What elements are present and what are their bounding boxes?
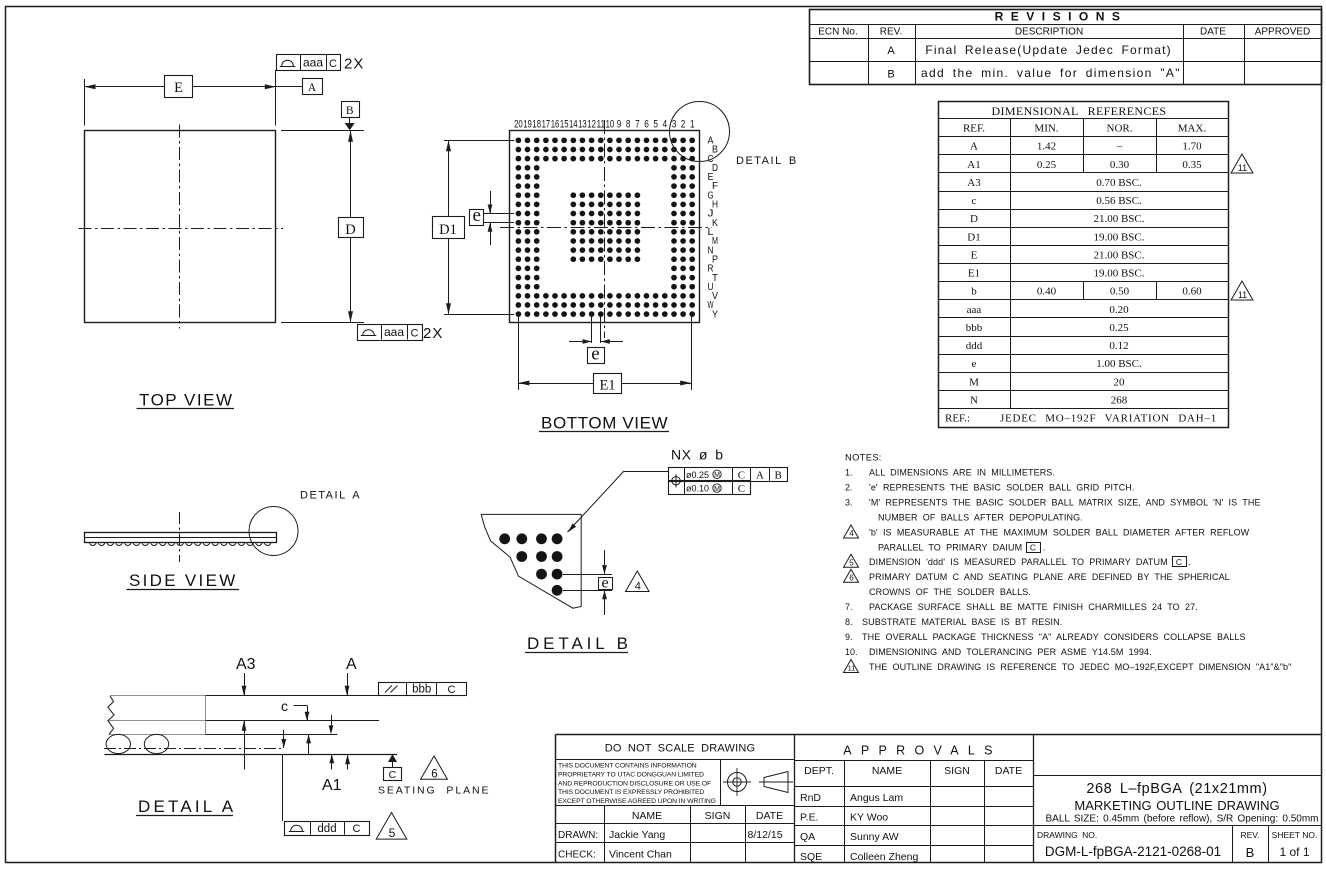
svg-text:ECN No.: ECN No. (818, 27, 857, 38)
detail A ball 2 (144, 734, 168, 753)
svg-text:P.E.: P.E. (800, 812, 819, 824)
note 11 triangle (b row) (1231, 281, 1253, 300)
svg-text:1.42: 1.42 (1037, 141, 1056, 153)
svg-text:aaa: aaa (384, 325, 404, 339)
svg-text:Jackie Yang: Jackie Yang (609, 829, 665, 841)
ball pitch e (left) arrows (490, 191, 492, 214)
svg-text:DATE: DATE (995, 765, 1022, 777)
svg-text:DIMENSION 'ddd' IS MEASURED PA: DIMENSION 'ddd' IS MEASURED PARALLEL TO … (869, 557, 1168, 567)
svg-text:C: C (411, 328, 419, 340)
side view solder balls (90, 542, 271, 545)
svg-text:DRAWN:: DRAWN: (558, 830, 598, 841)
svg-text:2: 2 (681, 119, 686, 131)
svg-text:MARKETING OUTLINE DRAWING: MARKETING OUTLINE DRAWING (1074, 798, 1279, 813)
detail A ball 1 (106, 734, 130, 753)
svg-text:5: 5 (653, 119, 658, 131)
svg-text:TOP VIEW: TOP VIEW (139, 391, 234, 410)
svg-text:APPROVALS: APPROVALS (843, 744, 1002, 758)
svg-text:CHECK:: CHECK: (558, 850, 596, 861)
datum C symbol at seating plane (388, 754, 397, 762)
svg-text:NUMBER OF BALLS AFTER DEPOPULA: NUMBER OF BALLS AFTER DEPOPULATING. (878, 513, 1083, 523)
bottom view horizontal centerline (500, 227, 712, 229)
bottom view vertical centerline (604, 120, 606, 338)
note 11 triangle (A1 row) (1231, 154, 1253, 173)
svg-text:0.56 BSC.: 0.56 BSC. (1096, 195, 1142, 207)
dimension E extension line left (84, 79, 86, 126)
svg-text:.: . (1188, 557, 1191, 567)
detail A top line / dimension A extension (206, 695, 466, 697)
svg-text:Final Release(Update Jedec For: Final Release(Update Jedec Format) (925, 43, 1172, 57)
svg-text:3.: 3. (845, 498, 853, 508)
dimension D line (350, 131, 352, 218)
revisions table (810, 10, 1322, 85)
svg-text:0.50: 0.50 (1110, 286, 1130, 298)
svg-text:DESCRIPTION: DESCRIPTION (1015, 27, 1083, 38)
svg-text:B: B (1246, 845, 1255, 860)
svg-text:DIMENSIONING AND TOLERANCING P: DIMENSIONING AND TOLERANCING PER ASME Y1… (869, 647, 1152, 657)
svg-text:C: C (353, 823, 361, 835)
side view package body (85, 533, 277, 543)
svg-text:KY Woo: KY Woo (850, 812, 888, 824)
ball pitch e (bottom) arrows (569, 341, 592, 343)
svg-text:aaa: aaa (303, 56, 323, 70)
svg-text:'M' REPRESENTS THE BASIC SOLDE: 'M' REPRESENTS THE BASIC SOLDER BALL MAT… (869, 498, 1261, 508)
svg-text:SIGN: SIGN (944, 765, 970, 777)
svg-text:20: 20 (1114, 376, 1126, 388)
svg-text:10.: 10. (845, 647, 858, 657)
svg-text:9: 9 (617, 119, 622, 131)
svg-text:8/12/15: 8/12/15 (748, 829, 783, 841)
svg-text:E: E (971, 249, 978, 261)
svg-text:e: e (472, 205, 480, 226)
solder ball grid (268 balls) (516, 137, 696, 317)
svg-text:21.00 BSC.: 21.00 BSC. (1093, 249, 1144, 261)
A1 dimension arrows (331, 754, 333, 769)
svg-text:aaa: aaa (967, 304, 982, 316)
svg-text:DRAWING NO.: DRAWING NO. (1037, 830, 1097, 840)
svg-text:10: 10 (606, 119, 615, 131)
detail B zoom circle (670, 102, 730, 162)
svg-text:A3: A3 (236, 656, 256, 673)
svg-text:SHEET NO.: SHEET NO. (1272, 830, 1318, 840)
svg-text:1.: 1. (845, 468, 853, 478)
svg-text:C: C (329, 58, 337, 70)
svg-text:8.: 8. (845, 617, 853, 627)
svg-text:NAME: NAME (632, 810, 662, 822)
svg-text:268 L–fpBGA (21x21mm): 268 L–fpBGA (21x21mm) (1086, 781, 1267, 797)
svg-text:add the min. value for dimensi: add the min. value for dimension "A" (921, 66, 1181, 80)
svg-text:4: 4 (849, 529, 854, 538)
svg-text:NX ø b: NX ø b (671, 447, 724, 463)
svg-text:D1: D1 (967, 231, 980, 243)
dimension D1 line (448, 140, 450, 216)
svg-text:AND REPRODUCTION DISCLOSURE OR: AND REPRODUCTION DISCLOSURE OR USE OF (558, 780, 711, 787)
ball pitch e (left) label box (470, 210, 484, 226)
leader from tolerance frame to ball (624, 471, 668, 473)
svg-text:ø0.10: ø0.10 (686, 484, 709, 494)
svg-text:A: A (970, 141, 978, 153)
detail B pitch e label box (599, 578, 613, 590)
svg-text:THIS DOCUMENT CONTAINS INFORMA: THIS DOCUMENT CONTAINS INFORMATION (558, 763, 697, 770)
svg-text:bbb: bbb (966, 322, 983, 334)
svg-text:EXCEPT OTHERWISE AGREED UPON I: EXCEPT OTHERWISE AGREED UPON IN WRITING (558, 798, 716, 805)
svg-text:MAX.: MAX. (1178, 123, 1207, 135)
svg-text:PACKAGE SURFACE SHALL BE MATTE: PACKAGE SURFACE SHALL BE MATTE FINISH CH… (869, 602, 1198, 612)
svg-text:0.25: 0.25 (1109, 322, 1129, 334)
detail B pitch e arrows (604, 550, 606, 574)
svg-text:–: – (1116, 141, 1123, 153)
top view package body outline (85, 131, 276, 323)
svg-text:0.25: 0.25 (1037, 159, 1057, 171)
svg-text:'e' REPRESENTS THE BASIC SOLDE: 'e' REPRESENTS THE BASIC SOLDER BALL GRI… (869, 483, 1135, 493)
svg-text:16: 16 (551, 119, 560, 131)
svg-text:MIN.: MIN. (1034, 123, 1058, 135)
svg-text:2.: 2. (845, 483, 853, 493)
top view vertical centerline (179, 125, 181, 329)
svg-text:3: 3 (672, 119, 677, 131)
note 11 triangle (notes list) (844, 660, 859, 673)
datum A feature box (276, 86, 302, 88)
svg-text:7.: 7. (845, 602, 853, 612)
svg-text:bbb: bbb (412, 684, 431, 696)
svg-text:REF.: REF. (963, 123, 985, 135)
svg-text:A1: A1 (322, 777, 342, 794)
svg-text:PRIMARY DATUM C AND SEATING PL: PRIMARY DATUM C AND SEATING PLANE ARE DE… (869, 572, 1230, 582)
detail B pitch e extension lines (563, 574, 612, 576)
title area (1033, 775, 1321, 777)
svg-text:19.00 BSC.: 19.00 BSC. (1093, 231, 1144, 243)
profile tolerance frame ddd C (282, 754, 284, 821)
detail A zoom circle (249, 507, 298, 556)
svg-text:DETAIL A: DETAIL A (300, 490, 361, 502)
svg-text:19.00 BSC.: 19.00 BSC. (1093, 268, 1144, 280)
svg-text:7: 7 (635, 119, 640, 131)
approvals section (794, 760, 1033, 762)
position symbol (669, 474, 682, 487)
svg-text:C: C (738, 469, 745, 481)
dimension E1 line (518, 383, 593, 385)
svg-text:APPROVED: APPROVED (1255, 27, 1311, 38)
svg-text:SUBSTRATE MATERIAL BASE IS BT: SUBSTRATE MATERIAL BASE IS BT RESIN. (862, 617, 1062, 627)
svg-text:JEDEC MO–192F VARIATION DAH–1: JEDEC MO–192F VARIATION DAH–1 (1000, 413, 1217, 425)
svg-text:0.12: 0.12 (1109, 340, 1128, 352)
svg-text:1: 1 (690, 119, 695, 131)
ball row letters A..Y (708, 135, 719, 321)
ball pitch e (bottom) label box (588, 348, 605, 364)
svg-text:1.00 BSC.: 1.00 BSC. (1096, 358, 1142, 370)
third angle projection cone symbol (759, 772, 793, 793)
svg-text:DO NOT SCALE DRAWING: DO NOT SCALE DRAWING (605, 743, 756, 755)
detail A break (zigzag) edge (108, 696, 114, 735)
svg-text:6: 6 (849, 573, 854, 582)
svg-text:20: 20 (514, 119, 523, 131)
svg-text:ø0.25: ø0.25 (686, 470, 709, 480)
svg-text:C: C (389, 769, 397, 781)
substrate-to-seating arrows (308, 734, 310, 754)
top edge extension line to datum B (281, 130, 364, 132)
svg-text:E1: E1 (599, 378, 615, 394)
svg-text:11: 11 (597, 119, 606, 131)
svg-text:18: 18 (532, 119, 541, 131)
dimension D label box (339, 218, 364, 238)
svg-text:A: A (756, 469, 764, 481)
svg-text:SEATING PLANE: SEATING PLANE (378, 785, 490, 797)
svg-text:A3: A3 (967, 177, 981, 189)
svg-text:9.: 9. (845, 632, 853, 642)
bottom edge extension line (281, 322, 364, 324)
dimension D1 label box (433, 217, 465, 239)
svg-text:THE OVERALL PACKAGE THICKNESS: THE OVERALL PACKAGE THICKNESS "A" ALREAD… (862, 632, 1246, 642)
svg-text:A: A (346, 656, 357, 673)
svg-text:C: C (1030, 543, 1036, 553)
svg-text:BALL SIZE: 0.45mm (before refl: BALL SIZE: 0.45mm (before reflow), S/R O… (1045, 814, 1318, 825)
note 5 triangle (376, 813, 407, 840)
svg-text:BOTTOM VIEW: BOTTOM VIEW (541, 414, 668, 433)
svg-text:A: A (887, 45, 895, 57)
detail B package corner fragment (481, 514, 581, 608)
svg-text:REV.: REV. (880, 27, 902, 38)
position tolerance frame row 2 (669, 481, 751, 495)
left section grid (556, 759, 795, 761)
svg-text:M: M (714, 472, 720, 479)
svg-text:.: . (1043, 543, 1046, 553)
svg-text:NOR.: NOR. (1107, 123, 1133, 135)
svg-text:DETAIL B: DETAIL B (527, 634, 632, 653)
svg-text:M: M (714, 486, 720, 493)
dimension E extension line right / datum stem (275, 70, 277, 126)
ball pitch e (left) extension lines (484, 213, 514, 215)
svg-text:SQE: SQE (800, 851, 822, 863)
svg-text:E1: E1 (968, 268, 980, 280)
svg-text:DETAIL A: DETAIL A (138, 797, 236, 816)
svg-text:1 of 1: 1 of 1 (1279, 845, 1309, 859)
note 6 triangle (421, 756, 448, 779)
svg-text:'b' IS MEASURABLE AT THE MAXIM: 'b' IS MEASURABLE AT THE MAXIMUM SOLDER … (869, 528, 1250, 538)
svg-text:11: 11 (848, 664, 856, 673)
svg-text:SIGN: SIGN (705, 810, 731, 822)
dimension E1 extension lines (518, 317, 520, 390)
svg-text:Vincent Chan: Vincent Chan (609, 849, 672, 861)
svg-text:2X: 2X (344, 56, 364, 73)
svg-text:Colleen Zheng: Colleen Zheng (850, 851, 918, 863)
ball pitch e (bottom) extension lines (591, 317, 593, 343)
c dimension arrows (331, 715, 333, 727)
A lower arrow at seating plane (347, 754, 349, 769)
svg-text:N: N (970, 394, 978, 406)
detail A substrate bottom extension (206, 734, 338, 736)
svg-text:4: 4 (663, 119, 668, 131)
svg-text:13: 13 (578, 119, 587, 131)
svg-text:Sunny AW: Sunny AW (850, 831, 899, 843)
dimension E1 label box (594, 374, 622, 394)
svg-text:6: 6 (431, 768, 437, 780)
svg-text:2X: 2X (423, 325, 443, 342)
dimension E label box (165, 76, 193, 98)
svg-text:c: c (281, 698, 288, 714)
svg-text:PARALLEL TO PRIMARY DAIUM: PARALLEL TO PRIMARY DAIUM (878, 543, 1022, 553)
svg-text:B: B (887, 69, 894, 81)
svg-text:QA: QA (800, 831, 815, 843)
dimension E line (85, 86, 165, 88)
svg-text:e: e (601, 575, 608, 592)
svg-text:e: e (972, 358, 977, 370)
svg-text:8: 8 (626, 119, 631, 131)
svg-text:DATE: DATE (756, 810, 783, 822)
svg-text:B: B (775, 469, 782, 481)
svg-text:THE OUTLINE DRAWING IS REFEREN: THE OUTLINE DRAWING IS REFERENCE TO JEDE… (869, 662, 1291, 672)
svg-text:REF.:: REF.: (945, 413, 970, 425)
svg-text:268: 268 (1111, 394, 1128, 406)
title block frame (556, 734, 1322, 736)
svg-text:0.30: 0.30 (1110, 159, 1130, 171)
position tolerance frame row 1 (669, 468, 788, 482)
side view substrate line (84, 537, 276, 539)
svg-text:DETAIL B: DETAIL B (736, 155, 798, 167)
top view horizontal centerline (79, 228, 284, 230)
svg-text:b: b (971, 286, 977, 298)
seating plane line (105, 754, 398, 756)
svg-text:ddd: ddd (317, 823, 336, 835)
svg-text:14: 14 (569, 119, 578, 131)
detail A mold/substrate interface extension (206, 720, 379, 722)
svg-text:17: 17 (542, 119, 551, 131)
svg-text:ALL DIMENSIONS ARE IN MILLIMET: ALL DIMENSIONS ARE IN MILLIMETERS. (869, 468, 1055, 478)
svg-text:11: 11 (1238, 290, 1247, 300)
svg-text:PROPRIETARY TO UTAC DONGGUAN L: PROPRIETARY TO UTAC DONGGUAN LIMITED (558, 771, 704, 778)
bottom view package outline (510, 131, 700, 323)
side view centerline (179, 512, 181, 562)
svg-text:c: c (972, 195, 977, 207)
detail A ball centerline (104, 748, 282, 750)
svg-text:CROWNS OF THE SOLDER BALLS.: CROWNS OF THE SOLDER BALLS. (869, 587, 1031, 597)
svg-text:DIMENSIONAL REFERENCES: DIMENSIONAL REFERENCES (992, 104, 1167, 118)
svg-text:D1: D1 (439, 222, 457, 238)
detail A body outline (light) (110, 695, 206, 697)
detail B solder balls (499, 533, 562, 595)
svg-text:THIS DOCUMENT IS EXPRESSLY PRO: THIS DOCUMENT IS EXPRESSLY PROHIBITED (558, 789, 704, 796)
svg-text:0.20: 0.20 (1109, 304, 1129, 316)
ball column numbers 20..1 (514, 119, 695, 131)
svg-text:REV.: REV. (1240, 830, 1259, 840)
svg-text:REVISIONS: REVISIONS (995, 10, 1128, 24)
svg-text:E: E (174, 80, 183, 96)
dimension D1 extension lines (444, 140, 514, 142)
profile tolerance flag aaa C (bottom) (358, 325, 423, 341)
datum B feature box with triangle (342, 102, 360, 118)
svg-text:D: D (970, 213, 978, 225)
svg-text:12: 12 (587, 119, 596, 131)
ball apex arrow (283, 730, 285, 748)
dimensional references table (939, 102, 1229, 428)
svg-text:0.35: 0.35 (1182, 159, 1202, 171)
svg-text:DATE: DATE (1200, 27, 1226, 38)
svg-text:NOTES:: NOTES: (845, 452, 882, 463)
svg-text:B: B (346, 105, 354, 117)
note 4 triangle (626, 571, 650, 592)
svg-text:19: 19 (523, 119, 532, 131)
svg-text:D: D (345, 222, 355, 238)
svg-text:e: e (591, 344, 599, 365)
svg-text:A1: A1 (967, 159, 980, 171)
svg-text:C: C (738, 483, 745, 495)
svg-text:RnD: RnD (800, 792, 821, 804)
A3 lower arrow (244, 721, 246, 770)
svg-text:SIDE VIEW: SIDE VIEW (129, 571, 238, 590)
svg-text:5: 5 (849, 558, 854, 567)
svg-text:6: 6 (644, 119, 649, 131)
third angle projection target symbol (723, 768, 751, 796)
svg-text:0.70 BSC.: 0.70 BSC. (1096, 177, 1142, 189)
svg-text:0.40: 0.40 (1037, 286, 1057, 298)
svg-text:A: A (308, 82, 317, 94)
parallelism tolerance frame bbb C (379, 683, 467, 696)
svg-text:Y: Y (712, 308, 718, 320)
svg-text:DEPT.: DEPT. (804, 765, 834, 777)
svg-text:21.00 BSC.: 21.00 BSC. (1093, 213, 1144, 225)
svg-text:C: C (1176, 557, 1182, 567)
svg-text:M: M (969, 376, 979, 388)
svg-text:11: 11 (1238, 163, 1247, 173)
svg-text:4: 4 (635, 581, 641, 593)
svg-text:NAME: NAME (872, 765, 902, 777)
profile tolerance flag aaa C (top) (277, 55, 341, 71)
svg-text:15: 15 (560, 119, 569, 131)
svg-text:DGM-L-fpBGA-2121-0268-01: DGM-L-fpBGA-2121-0268-01 (1045, 844, 1221, 859)
svg-text:C: C (448, 684, 456, 696)
svg-text:5: 5 (389, 826, 396, 840)
svg-text:1.70: 1.70 (1182, 141, 1202, 153)
svg-text:0.60: 0.60 (1182, 286, 1202, 298)
svg-text:Angus Lam: Angus Lam (850, 792, 903, 804)
svg-text:ddd: ddd (966, 340, 983, 352)
